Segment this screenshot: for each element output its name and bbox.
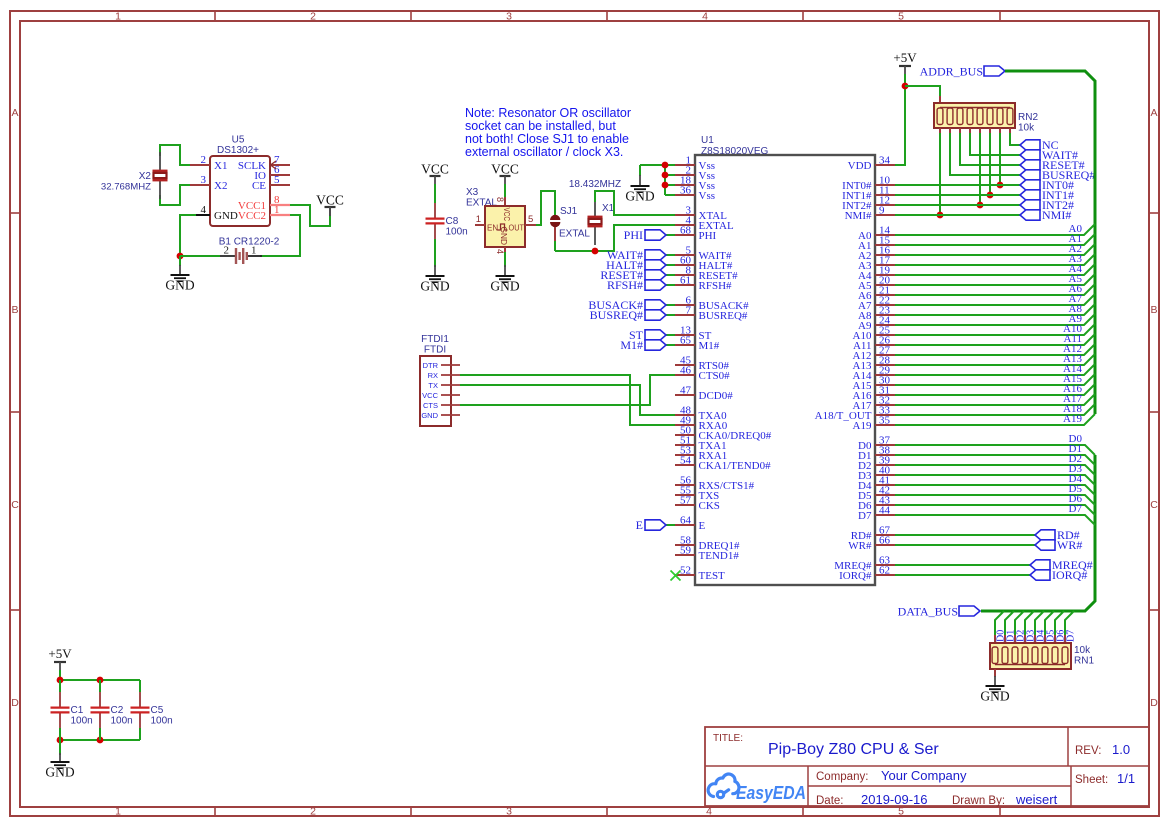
- svg-text:2: 2: [310, 11, 316, 23]
- U1 pin 55 TXS: [675, 494, 695, 496]
- U1 pin 24 A9: [875, 324, 895, 326]
- wire D6 branch: [1055, 611, 1064, 637]
- U5 SCLK clock mark: [271, 161, 277, 169]
- svg-text:E: E: [636, 518, 643, 532]
- bottom rail: [60, 739, 140, 741]
- svg-text:52: 52: [680, 565, 691, 577]
- U1 pin 6 BUSACK#: [675, 304, 695, 306]
- svg-text:100n: 100n: [111, 716, 133, 727]
- wire RD#: [895, 534, 1035, 536]
- svg-text:M1#: M1#: [620, 338, 643, 352]
- svg-text:GND: GND: [45, 765, 74, 780]
- svg-text:TX: TX: [428, 381, 438, 390]
- wire to RESET# flag: [666, 274, 675, 276]
- svg-text:62: 62: [879, 565, 890, 577]
- U1 pin 20 A5: [875, 284, 895, 286]
- wire to E flag: [666, 524, 675, 526]
- net port ADDR_BUS: [984, 66, 1005, 76]
- svg-text:B: B: [1150, 304, 1157, 316]
- VCC symbol right of U5: [329, 207, 331, 216]
- svg-text:X2: X2: [214, 180, 227, 192]
- U1 pin 41 D4: [875, 484, 895, 486]
- svg-text:SJ1: SJ1: [560, 206, 578, 217]
- wire D4 branch: [1035, 611, 1044, 637]
- U1 pin 68 PHI: [675, 234, 695, 236]
- U1 pin 8 RESET#: [675, 274, 695, 276]
- svg-text:CE: CE: [252, 180, 266, 192]
- wire A7: [895, 294, 1095, 305]
- svg-text:1: 1: [115, 806, 121, 818]
- svg-text:Vss: Vss: [699, 190, 716, 202]
- svg-text:100n: 100n: [446, 227, 468, 238]
- U1 pin 32 A17: [875, 404, 895, 406]
- net flag BUSREQ#: [645, 310, 666, 320]
- U1 pin 38 D1: [875, 454, 895, 456]
- wire A17: [895, 394, 1095, 405]
- U1 pin 54 CKA1/TEND0#: [675, 464, 695, 466]
- svg-text:IORQ#: IORQ#: [839, 570, 872, 582]
- U1 pin 33 A18/T_OUT: [875, 414, 895, 416]
- svg-text:4: 4: [495, 249, 505, 254]
- svg-text:+5V: +5V: [893, 50, 917, 65]
- wire +5V to RN2 common: [905, 86, 940, 104]
- U1 pin 65 M1#: [675, 344, 695, 346]
- wire to ST flag: [666, 334, 675, 336]
- svg-text:GND: GND: [499, 227, 509, 246]
- wire to PHI flag: [666, 234, 675, 236]
- svg-text:5: 5: [274, 174, 280, 186]
- resistor network RN2 10k: [939, 96, 941, 104]
- svg-text:2: 2: [224, 245, 230, 257]
- svg-text:GND: GND: [214, 210, 238, 222]
- svg-text:BUSREQ#: BUSREQ#: [699, 310, 748, 322]
- svg-text:external oscillator / clock X3: external oscillator / clock X3.: [465, 145, 623, 159]
- svg-text:EXTAL: EXTAL: [559, 229, 590, 240]
- capacitor C1 100n: [59, 680, 61, 693]
- svg-text:5: 5: [898, 11, 904, 23]
- net flag NC: [1020, 140, 1040, 150]
- U1 pin 58 DREQ1#: [675, 544, 695, 546]
- svg-text:VCC2: VCC2: [238, 210, 266, 222]
- svg-text:U5: U5: [232, 135, 245, 146]
- U1 pin 13 ST: [675, 334, 695, 336]
- EasyEDA logo: [708, 774, 739, 798]
- U1 pin 61 RFSH#: [675, 284, 695, 286]
- wire D0: [895, 445, 1095, 455]
- svg-text:Note: Resonator OR oscillator: Note: Resonator OR oscillator: [465, 106, 631, 120]
- net flag INT0#: [1020, 180, 1040, 190]
- U5 pin 6 IO: [270, 174, 290, 176]
- svg-text:36: 36: [680, 185, 692, 197]
- svg-text:34: 34: [879, 155, 891, 167]
- svg-text:10k: 10k: [1018, 123, 1035, 134]
- U1 pin 22 A7: [875, 304, 895, 306]
- U1 pin 1 Vss: [675, 164, 695, 166]
- svg-text:61: 61: [680, 275, 691, 287]
- svg-text:A: A: [11, 107, 18, 119]
- svg-text:10k: 10k: [1074, 645, 1091, 656]
- svg-text:9: 9: [879, 205, 885, 217]
- svg-text:1: 1: [476, 214, 481, 225]
- svg-text:59: 59: [680, 545, 692, 557]
- svg-text:2: 2: [201, 154, 207, 166]
- U1 pin 44 D7: [875, 514, 895, 516]
- no-connect X on U1 pin 52 TEST: [671, 571, 681, 581]
- ground below X3: [496, 275, 515, 277]
- svg-text:DCD0#: DCD0#: [699, 390, 734, 402]
- svg-text:1: 1: [251, 245, 257, 257]
- svg-text:B: B: [11, 304, 18, 316]
- U1 pin 48 TXA0: [675, 414, 695, 416]
- U1 pin 19 A4: [875, 274, 895, 276]
- wire D4: [895, 485, 1095, 495]
- top rail: [60, 679, 140, 681]
- RN1 common pin to ground: [994, 669, 996, 677]
- svg-text:32.768MHZ: 32.768MHZ: [101, 182, 151, 193]
- crystal X2: [159, 152, 161, 170]
- wire A13: [895, 354, 1095, 365]
- svg-text:D: D: [1150, 697, 1158, 709]
- junctions RN2 to INT/NMI: [937, 212, 944, 219]
- svg-text:4: 4: [706, 806, 712, 818]
- FTDI1 pin VCC: [441, 394, 460, 396]
- svg-text:D7: D7: [1069, 503, 1083, 515]
- svg-text:3: 3: [201, 174, 207, 186]
- svg-text:VCC: VCC: [502, 208, 511, 222]
- U1 pin 14 A0: [875, 234, 895, 236]
- U5 pin 2 X1: [190, 164, 210, 166]
- svg-text:socket can be installed, but: socket can be installed, but: [465, 119, 616, 133]
- wire X3 pin4 to GND: [504, 252, 506, 267]
- net flag WAIT#: [1020, 150, 1040, 160]
- U1 pin 5 WAIT#: [675, 254, 695, 256]
- wire A5: [895, 274, 1095, 285]
- wire A10: [895, 324, 1095, 335]
- wire A18: [895, 404, 1095, 415]
- net flag BUSACK#: [645, 300, 666, 310]
- junction: [177, 253, 184, 260]
- wire A12: [895, 344, 1095, 355]
- U1 pin 36 Vss: [675, 194, 695, 196]
- U1 pin 47 DCD0#: [675, 394, 695, 396]
- svg-text:2: 2: [310, 806, 316, 818]
- U1 pin 52 TEST: [675, 574, 695, 576]
- svg-text:GND: GND: [625, 189, 654, 204]
- ground for Vss: [639, 165, 641, 176]
- net flag INT1#: [1020, 190, 1040, 200]
- wire D1 branch: [1005, 611, 1014, 637]
- svg-text:1: 1: [274, 204, 280, 216]
- U1 pin 62 IORQ#: [875, 574, 895, 576]
- U5 pin 5 CE: [270, 184, 290, 186]
- U1 pin 59 TEND1#: [675, 554, 695, 556]
- svg-text:66: 66: [879, 535, 891, 547]
- net flag HALT#: [645, 260, 666, 270]
- wire D3: [895, 475, 1095, 485]
- U1 pin 26 A11: [875, 344, 895, 346]
- svg-text:EN: EN: [487, 224, 498, 233]
- net flag WAIT#: [645, 250, 666, 260]
- svg-text:1: 1: [115, 11, 121, 23]
- U1 pin 53 RXA1: [675, 454, 695, 456]
- svg-text:weisert: weisert: [1015, 792, 1058, 807]
- U5 pin 7 SCLK: [270, 164, 290, 166]
- U1 pin 66 WR#: [875, 544, 895, 546]
- svg-text:RN1: RN1: [1074, 656, 1094, 667]
- svg-text:X1: X1: [602, 203, 615, 214]
- U1 pin 60 HALT#: [675, 264, 695, 266]
- svg-text:64: 64: [680, 515, 692, 527]
- wire A1: [895, 234, 1095, 245]
- svg-text:Pip-Boy Z80 CPU & Ser: Pip-Boy Z80 CPU & Ser: [768, 741, 939, 758]
- net flag BUSREQ#: [1020, 170, 1040, 180]
- svg-text:DATA_BUS: DATA_BUS: [898, 605, 958, 619]
- wire D3 branch: [1025, 611, 1034, 637]
- svg-text:DS1302+: DS1302+: [217, 145, 259, 156]
- svg-text:44: 44: [879, 505, 891, 517]
- svg-text:CTS0#: CTS0#: [699, 370, 731, 382]
- U1 pin 51 TXA1: [675, 444, 695, 446]
- svg-text:C: C: [11, 499, 19, 511]
- net flag INT2#: [1020, 200, 1040, 210]
- U1 pin 39 D2: [875, 464, 895, 466]
- net flag M1#: [645, 340, 666, 350]
- net flag E: [645, 520, 666, 530]
- ground below RN1: [986, 685, 1005, 687]
- svg-text:RN2: RN2: [1018, 112, 1038, 123]
- svg-text:GND: GND: [980, 689, 1009, 704]
- X3 pin 5: [525, 224, 536, 226]
- svg-text:A: A: [1150, 107, 1157, 119]
- svg-text:2019-09-16: 2019-09-16: [861, 792, 928, 807]
- svg-text:5: 5: [528, 214, 533, 225]
- wire MREQ#: [895, 564, 1030, 566]
- resistor network RN1 10k: [994, 635, 996, 644]
- U1 pin 50 CKA0/DREQ0#: [675, 434, 695, 436]
- FTDI1 pin RX: [441, 374, 460, 376]
- svg-text:D: D: [11, 697, 19, 709]
- svg-text:D7: D7: [858, 510, 872, 522]
- svg-text:VCC: VCC: [491, 162, 519, 177]
- wire A6: [895, 284, 1095, 295]
- svg-text:FTDI1: FTDI1: [421, 334, 449, 345]
- U1 pin 2 Vss: [675, 174, 695, 176]
- U1 pin 67 RD#: [875, 534, 895, 536]
- net flag WR#: [1035, 540, 1055, 550]
- svg-text:GND: GND: [165, 278, 194, 293]
- ground GND below U5: [179, 256, 181, 266]
- junctions on Vss rail: [662, 162, 669, 169]
- U1 pin 23 A8: [875, 314, 895, 316]
- svg-text:C1: C1: [71, 705, 84, 716]
- svg-text:Sheet:: Sheet:: [1075, 774, 1108, 786]
- U1 pin 12 INT2#: [875, 204, 895, 206]
- solder jumper SJ1: [550, 215, 560, 220]
- wire A19: [895, 414, 1095, 425]
- svg-text:BUSREQ#: BUSREQ#: [590, 308, 643, 322]
- U1 pin 28 A13: [875, 364, 895, 366]
- svg-text:RFSH#: RFSH#: [699, 280, 733, 292]
- wire A4: [895, 264, 1095, 275]
- wire Vss pins to ground: [664, 165, 666, 195]
- net flag RD#: [1035, 530, 1055, 540]
- svg-text:FTDI: FTDI: [424, 345, 446, 356]
- svg-text:GND: GND: [420, 279, 449, 294]
- svg-text:X3: X3: [466, 187, 479, 198]
- net flag NMI#: [1020, 210, 1040, 220]
- svg-text:Drawn By:: Drawn By:: [952, 795, 1005, 807]
- svg-text:57: 57: [680, 495, 692, 507]
- svg-text:4: 4: [201, 204, 207, 216]
- U1 pin 27 A12: [875, 354, 895, 356]
- svg-text:X1: X1: [214, 160, 227, 172]
- wire A14: [895, 364, 1095, 375]
- wire to ground: [59, 740, 61, 755]
- svg-text:35: 35: [879, 415, 891, 427]
- svg-text:DTR: DTR: [423, 361, 439, 370]
- wire A3: [895, 254, 1095, 265]
- U1 pin 37 D0: [875, 444, 895, 446]
- U1 pin 15 A1: [875, 244, 895, 246]
- svg-text:OUT: OUT: [509, 224, 525, 233]
- svg-text:3: 3: [506, 806, 512, 818]
- wire D5: [895, 495, 1095, 505]
- svg-text:C5: C5: [151, 705, 164, 716]
- wire A2: [895, 244, 1095, 255]
- wire VCC to X3 pin8: [504, 184, 506, 199]
- address bus wire: [1005, 71, 1095, 414]
- U1 pin 57 CKS: [675, 504, 695, 506]
- X3 clock glyph: [498, 224, 508, 230]
- capacitor C8 100n: [434, 200, 436, 204]
- svg-text:NMI#: NMI#: [1042, 208, 1071, 222]
- svg-text:1.0: 1.0: [1112, 742, 1130, 757]
- RN2 wires to flags: [939, 133, 941, 215]
- svg-text:EasyEDA: EasyEDA: [736, 782, 806, 803]
- net flag RFSH#: [645, 280, 666, 290]
- svg-text:68: 68: [680, 225, 692, 237]
- capacitor C2 100n: [99, 680, 101, 693]
- svg-text:CTS: CTS: [423, 401, 438, 410]
- wire to WAIT# flag: [666, 254, 675, 256]
- ground bottom left: [51, 761, 70, 763]
- wire to HALT# flag: [666, 264, 675, 266]
- svg-text:18.432MHZ: 18.432MHZ: [569, 179, 621, 190]
- svg-text:C: C: [1150, 499, 1158, 511]
- FTDI1 pin GND: [441, 414, 460, 416]
- svg-text:TEND1#: TEND1#: [699, 550, 740, 562]
- U1 pin 29 A14: [875, 374, 895, 376]
- U1 pin 9 NMI#: [875, 214, 895, 216]
- wire X2 bottom to U5 pin3: [160, 185, 190, 205]
- FTDI1 pin DTR: [441, 364, 460, 366]
- wire A0: [895, 224, 1095, 235]
- U1 pin 21 A6: [875, 294, 895, 296]
- U1 pin 56 RXS/CTS1#: [675, 484, 695, 486]
- net flag MREQ#: [1030, 560, 1050, 570]
- U5 pin 3 X2: [190, 184, 210, 186]
- U1 pin 45 RTS0#: [675, 364, 695, 366]
- wire to RFSH# flag: [666, 284, 675, 286]
- wire battery pin2 to ground junction: [180, 255, 220, 257]
- svg-text:ADDR_BUS: ADDR_BUS: [920, 65, 983, 79]
- U1 pin 46 CTS0#: [675, 374, 695, 376]
- wire D7 branch: [1065, 611, 1074, 637]
- wire FTDI TX to U1 TXA0: [460, 385, 675, 415]
- U1 pin 43 D6: [875, 504, 895, 506]
- svg-text:4: 4: [702, 11, 708, 23]
- svg-text:A19: A19: [853, 420, 872, 432]
- svg-text:NMI#: NMI#: [845, 210, 872, 222]
- wire C8 to GND: [434, 245, 436, 267]
- U1 pin 40 D3: [875, 474, 895, 476]
- svg-text:54: 54: [680, 455, 692, 467]
- svg-text:PHI: PHI: [624, 228, 643, 242]
- wire IORQ#: [895, 574, 1030, 576]
- wire D1: [895, 455, 1095, 465]
- net flag IORQ#: [1030, 570, 1050, 580]
- wire D7: [895, 515, 1095, 525]
- svg-text:IORQ#: IORQ#: [1052, 568, 1087, 582]
- svg-text:E: E: [699, 520, 706, 532]
- U1 pin 18 Vss: [675, 184, 695, 186]
- X3 pin 4: [504, 247, 506, 254]
- U1 pin 10 INT0#: [875, 184, 895, 186]
- net flag RESET#: [645, 270, 666, 280]
- svg-text:VCC: VCC: [316, 193, 344, 208]
- capacitor C5 100n: [139, 680, 141, 693]
- svg-text:RX: RX: [428, 371, 438, 380]
- net port DATA_BUS: [959, 606, 980, 616]
- wire A9: [895, 314, 1095, 325]
- U1 pin 17 A3: [875, 264, 895, 266]
- FTDI1 pin CTS: [441, 404, 460, 406]
- wire to M1# flag: [666, 344, 675, 346]
- U1 pin 7 BUSREQ#: [675, 314, 695, 316]
- U1 pin 34 VDD: [875, 164, 895, 166]
- wire A16: [895, 384, 1095, 395]
- U1 pin 42 D5: [875, 494, 895, 496]
- wire VCC to C8: [434, 184, 436, 202]
- net flag ST: [645, 330, 666, 340]
- svg-text:U1: U1: [701, 135, 714, 146]
- wire +5V to VDD pin 34: [895, 74, 905, 165]
- SJ1 bottom lead: [554, 227, 556, 243]
- svg-text:3: 3: [506, 11, 512, 23]
- X3 pin 1: [475, 224, 485, 226]
- svg-text:D7: D7: [1066, 630, 1077, 642]
- svg-text:CKA1/TEND0#: CKA1/TEND0#: [699, 460, 772, 472]
- wire VCC2 to battery: [260, 215, 300, 256]
- U5 pin 1 VCC2: [270, 214, 290, 216]
- wire to BUSACK# flag: [666, 304, 675, 306]
- wire A15: [895, 374, 1095, 385]
- svg-text:TITLE:: TITLE:: [713, 733, 743, 744]
- U1 pin 30 A15: [875, 384, 895, 386]
- U1 pin 31 A16: [875, 394, 895, 396]
- U1 pin 11 INT1#: [875, 194, 895, 196]
- svg-text:A19: A19: [1063, 413, 1082, 425]
- svg-text:TEST: TEST: [699, 570, 726, 582]
- U1 pin 35 A19: [875, 424, 895, 426]
- svg-text:Date:: Date:: [816, 795, 844, 807]
- svg-text:46: 46: [680, 365, 692, 377]
- wire D6: [895, 505, 1095, 515]
- svg-text:not both! Close SJ1 to enable: not both! Close SJ1 to enable: [465, 132, 629, 146]
- svg-text:100n: 100n: [71, 716, 93, 727]
- wire A11: [895, 334, 1095, 345]
- net flag RESET#: [1020, 160, 1040, 170]
